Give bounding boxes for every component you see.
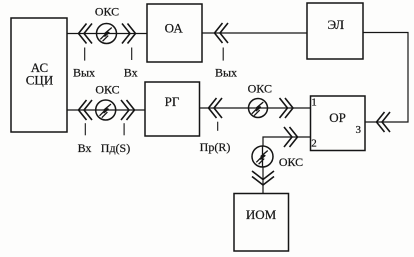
chevron C4 on W2 [121, 100, 135, 120]
tick T4 [123, 123, 125, 135]
chevron C5 on W3 [215, 23, 229, 43]
block RG [145, 82, 200, 136]
wire W3: OA to EL [202, 32, 307, 34]
svg-text:Вх: Вх [78, 141, 92, 155]
wire W1: AC SCI to OA [67, 33, 147, 35]
chevron C3 on W2 [79, 100, 93, 120]
svg-text:РГ: РГ [165, 94, 180, 109]
chevron C7 on W4 [280, 98, 294, 118]
block IOM [234, 194, 289, 252]
svg-text:Вх: Вх [124, 66, 138, 80]
svg-text:Пд(S): Пд(S) [101, 141, 130, 155]
svg-text:ОКС: ОКС [279, 155, 303, 169]
svg-text:ОР: ОР [329, 110, 346, 125]
OKC connector O3 [249, 99, 268, 118]
block AC SCI [11, 18, 67, 132]
svg-text:ЭЛ: ЭЛ [328, 17, 345, 32]
svg-text:3: 3 [356, 124, 362, 136]
svg-text:ОКС: ОКС [95, 83, 119, 97]
chevron C6 on W4 [209, 98, 223, 118]
chevron C8 on W6 [284, 127, 298, 147]
chevron C1 on W1 [79, 24, 93, 44]
OKC connector O2 [96, 100, 116, 120]
tick T1 [84, 48, 86, 61]
svg-text:ОКС: ОКС [95, 5, 119, 19]
tick T5 [222, 48, 224, 61]
OKC connector O4 [252, 146, 273, 167]
block EL [307, 3, 363, 59]
block OR [311, 96, 366, 151]
svg-text:Вых: Вых [215, 66, 237, 80]
OKC connector O1 [97, 24, 117, 44]
wire W2: AC SCI to RG [67, 109, 145, 111]
tick T2 [131, 48, 133, 61]
svg-text:ОА: ОА [165, 21, 184, 36]
svg-text:Пр(R): Пр(R) [200, 140, 231, 154]
svg-text:2: 2 [311, 138, 317, 150]
tick T3 [84, 123, 86, 135]
tick T6 [217, 122, 219, 131]
svg-text:Вых: Вых [73, 66, 95, 80]
wire W6: OR pin 2 down to IOM [263, 137, 311, 194]
svg-text:ИОМ: ИОМ [246, 207, 277, 222]
chevron C2 on W1 [122, 24, 136, 44]
svg-text:СЦИ: СЦИ [26, 73, 53, 88]
chevron C10 on W5 [377, 112, 391, 132]
svg-text:ОКС: ОКС [248, 82, 272, 96]
wire W4: RG to OR pin 1 [200, 107, 311, 109]
svg-text:1: 1 [311, 97, 317, 109]
wire W5: EL right, down to OR pin 3 [363, 33, 408, 123]
block OA [147, 4, 202, 62]
chevron C9 down on W6 [252, 171, 274, 185]
